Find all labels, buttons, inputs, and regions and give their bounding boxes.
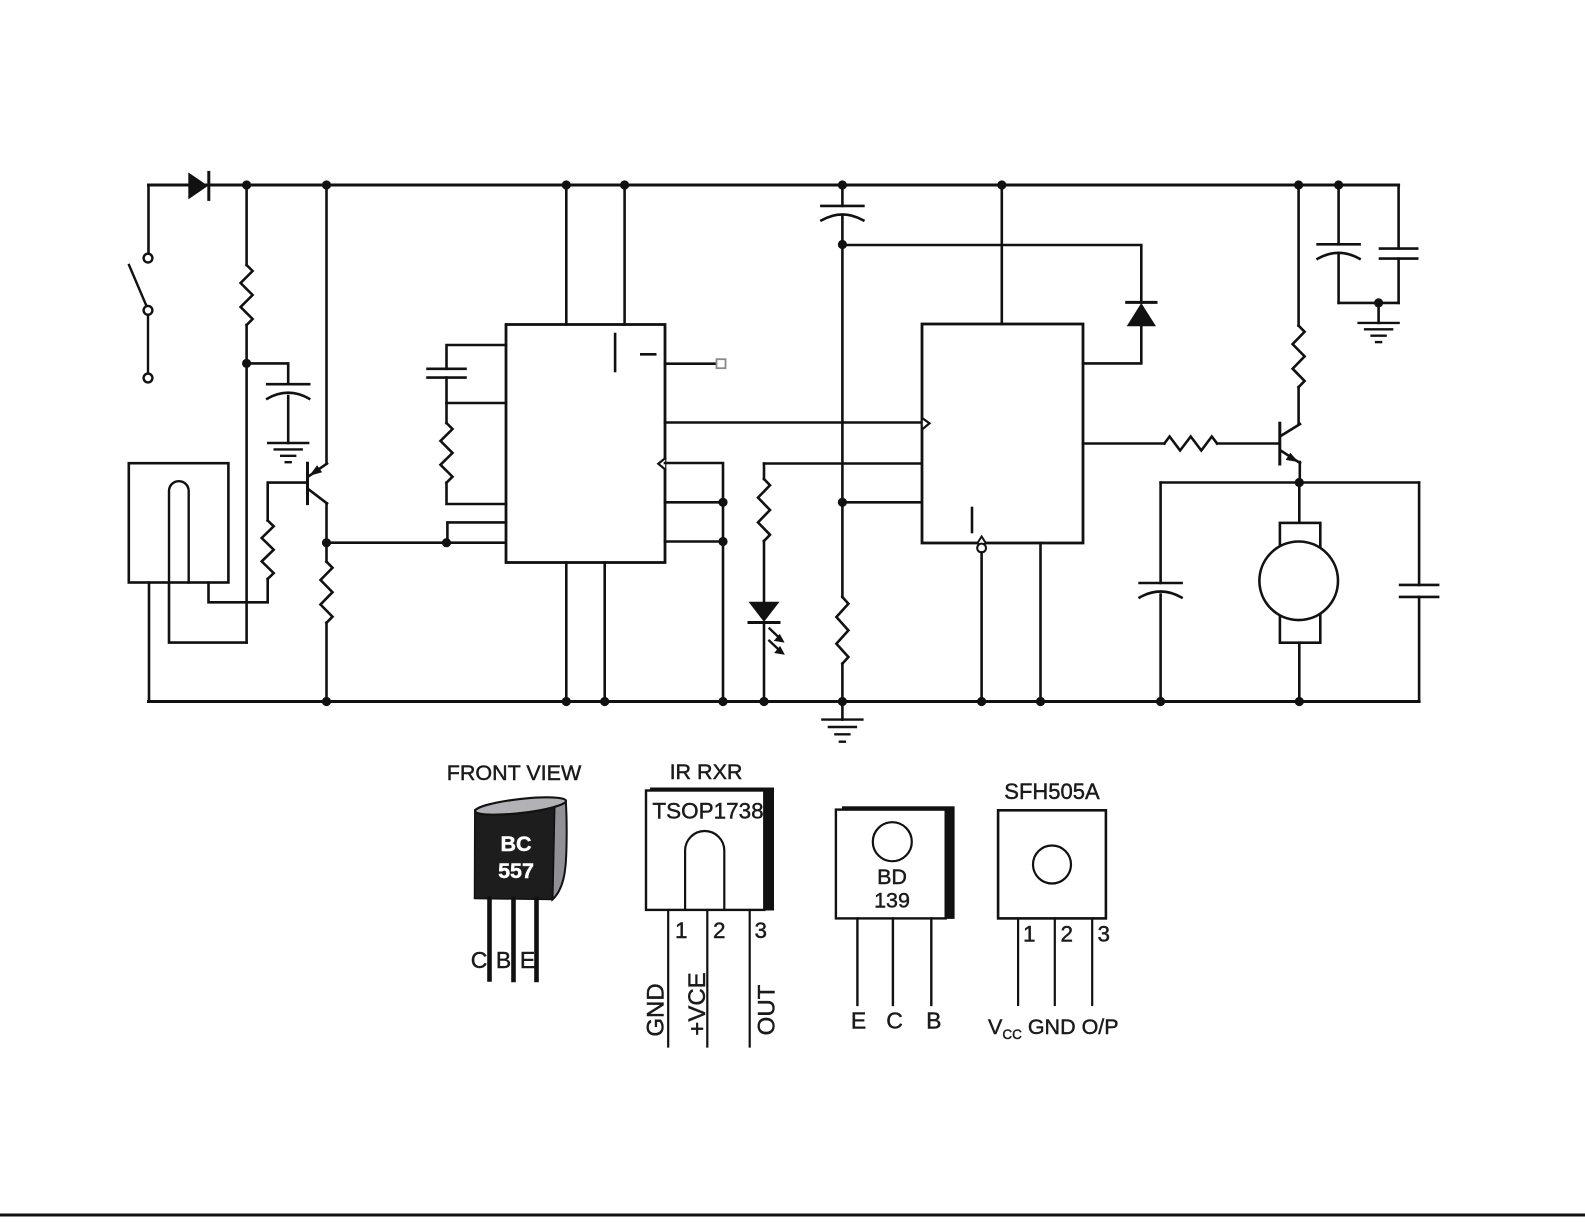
wire R2 to Q2 collector bbox=[1297, 387, 1300, 424]
BC557 lead E bbox=[534, 899, 539, 980]
node H bbox=[1374, 298, 1383, 307]
wire U2 out bbox=[1083, 442, 1164, 445]
wire Q1c to U1 bbox=[327, 541, 507, 544]
node B (R1 / C1 / Vs) bbox=[242, 359, 251, 368]
wire LED net bbox=[764, 462, 921, 465]
node U1gnd/rail bbox=[562, 697, 571, 706]
node rail/U2 bbox=[997, 180, 1006, 189]
node D (trigger net) bbox=[442, 538, 451, 547]
wire U1 pin to C2 top bbox=[447, 345, 507, 369]
svg-text:2: 2 bbox=[1061, 922, 1074, 947]
wire Q2 emitter to motor net bbox=[1299, 462, 1302, 483]
LED D3 bbox=[749, 602, 780, 622]
wire U1 pin bottom-right bbox=[603, 563, 606, 702]
svg-text:C: C bbox=[886, 1008, 903, 1034]
node R5/rail bbox=[322, 697, 331, 706]
wire IRX1 pin1 GND bbox=[148, 583, 151, 702]
svg-text:2: 2 bbox=[713, 918, 726, 943]
page footer rule bbox=[0, 1214, 1585, 1217]
SFH505A pin 3 lead bbox=[1091, 918, 1093, 1005]
wire D2 to node F1 bbox=[842, 245, 1141, 302]
wire Q1 emitter to rail bbox=[325, 185, 328, 464]
wire R3 top to Q1 base bbox=[268, 483, 307, 521]
svg-text:3: 3 bbox=[755, 918, 768, 943]
BC557 lead B bbox=[511, 899, 516, 980]
node rail/C5 bbox=[1334, 180, 1343, 189]
wire U1 pin y502 bbox=[665, 501, 723, 504]
node rail/U1a bbox=[562, 180, 571, 189]
wire LED to rail bbox=[763, 623, 766, 702]
svg-text:VCC GND O/P: VCC GND O/P bbox=[988, 1015, 1119, 1042]
svg-text:BC: BC bbox=[500, 832, 531, 856]
resistor R5 bbox=[321, 562, 333, 623]
node U1b2/rail bbox=[600, 697, 609, 706]
wire U2 top pin bbox=[1000, 185, 1003, 324]
resistor R4 bbox=[441, 423, 453, 483]
node C7/rail bbox=[1156, 697, 1165, 706]
wire rail to C5 bbox=[1337, 185, 1340, 244]
wire C2 bottom / pin bbox=[447, 378, 507, 403]
wire U1 pin to node D bbox=[447, 522, 506, 542]
wire rail corner to C6 bbox=[1397, 185, 1400, 249]
capacitor C7 bbox=[1140, 582, 1182, 585]
SFH505A pin 1 lead bbox=[1017, 918, 1019, 1005]
svg-text:SFH505A: SFH505A bbox=[1004, 779, 1100, 804]
BD139 lead C bbox=[892, 918, 894, 1005]
capacitor C4 bbox=[821, 205, 863, 208]
wire R6 to Q2 base bbox=[1217, 442, 1279, 445]
motor M1 bbox=[1280, 523, 1320, 643]
resistor R3 bbox=[262, 521, 274, 579]
SFH505A pin 2 lead bbox=[1054, 918, 1056, 1005]
wire IRX1 pin3 OUT bbox=[209, 579, 268, 602]
svg-text:C: C bbox=[471, 947, 488, 973]
svg-text:557: 557 bbox=[498, 859, 534, 883]
wire U2 bottom pin2 bbox=[1039, 543, 1042, 702]
TSOP1738 shadow bbox=[650, 788, 774, 911]
resistor R6 bbox=[1164, 437, 1217, 451]
test point square bbox=[717, 359, 726, 368]
wire node B down bbox=[245, 363, 248, 642]
TSOP1738 pin 3 lead bbox=[749, 910, 751, 1047]
ground G3 bbox=[1377, 303, 1380, 323]
svg-text:BD: BD bbox=[877, 865, 907, 889]
capacitor C5 bbox=[1318, 243, 1360, 246]
svg-text:3: 3 bbox=[1098, 922, 1111, 947]
svg-text:TSOP1738: TSOP1738 bbox=[652, 799, 763, 824]
wire U1 pin y463 bbox=[665, 463, 723, 702]
wire +V top rail bbox=[149, 184, 1399, 187]
wire motor bottom lead bbox=[1298, 643, 1301, 702]
wire F2 to U2 bbox=[842, 501, 922, 504]
wire C8 top bbox=[1418, 483, 1421, 585]
node motor/rail bbox=[1295, 697, 1304, 706]
wire U1 out to U2 in bbox=[665, 421, 921, 424]
wire to C1 bbox=[247, 363, 289, 384]
wire U1 pin y541 bbox=[665, 540, 723, 543]
TSOP1738 dome bbox=[685, 831, 724, 910]
U1 input arrow bbox=[658, 458, 665, 469]
TSOP1738 pin 1 lead bbox=[667, 910, 669, 1047]
wire C7 bottom bbox=[1159, 595, 1162, 702]
ground G1 bbox=[268, 443, 308, 462]
capacitor C2 bbox=[428, 367, 466, 370]
wire R8 to LED bbox=[763, 541, 766, 602]
wire R5 leads bbox=[325, 543, 328, 562]
node rail/U1b bbox=[620, 180, 629, 189]
BD139 shadow bbox=[842, 806, 955, 919]
wire C7 top bbox=[1159, 483, 1162, 584]
switch S1 bbox=[129, 254, 152, 383]
svg-text:139: 139 bbox=[874, 889, 910, 913]
wire C8 bottom bbox=[1418, 597, 1421, 702]
wire 0V bottom rail bbox=[149, 700, 1420, 703]
resistor R2 bbox=[1293, 326, 1305, 387]
node A (rail / R1) bbox=[242, 180, 251, 189]
node F1 (diode tap) bbox=[838, 240, 847, 249]
svg-text:FRONT VIEW: FRONT VIEW bbox=[447, 761, 582, 785]
node E2 bbox=[718, 537, 727, 546]
node E1 bbox=[718, 498, 727, 507]
diode D1 bbox=[188, 172, 208, 199]
wire C6 down bbox=[1397, 259, 1400, 303]
wire rail to R2 bbox=[1297, 185, 1300, 326]
wire cap join bar bbox=[1339, 302, 1399, 305]
svg-text:GND: GND bbox=[643, 983, 670, 1036]
resistor R8 bbox=[758, 479, 770, 541]
wire U1 pin top-right bbox=[623, 185, 626, 325]
wire IRX1 pin2 Vs bbox=[169, 583, 247, 643]
resistor R7 bbox=[836, 597, 848, 664]
svg-text:OUT: OUT bbox=[754, 984, 781, 1035]
wire R7 to rail bbox=[841, 664, 844, 702]
U2 input arrow bbox=[923, 419, 930, 429]
node E3 (rail) bbox=[718, 697, 727, 706]
node rail/C4 bbox=[838, 180, 847, 189]
node LED/rail bbox=[759, 697, 768, 706]
wire U2 to D2 bbox=[1083, 326, 1141, 363]
node F2 (U2 pin tap) bbox=[838, 498, 847, 507]
wire switch feed bbox=[147, 185, 150, 254]
IR receiver module IRX1 body bbox=[129, 463, 229, 582]
node rail/R2 bbox=[1294, 180, 1303, 189]
resistor R1 bbox=[241, 265, 253, 325]
node R7/rail bbox=[838, 697, 847, 706]
TSOP1738 body bbox=[646, 791, 764, 910]
BD139 body bbox=[836, 810, 946, 919]
node rail/Q1e bbox=[322, 180, 331, 189]
svg-text:IR RXR: IR RXR bbox=[670, 760, 743, 784]
node C (Q1 collector) bbox=[322, 538, 331, 547]
svg-text:B: B bbox=[926, 1008, 941, 1034]
BD139 mounting hole bbox=[873, 822, 912, 861]
wire R4 bottom pin bbox=[447, 483, 507, 504]
wire motor top lead bbox=[1298, 483, 1301, 523]
op-amp U2 IC2 box bbox=[922, 324, 1083, 543]
capacitor C6 bbox=[1380, 247, 1417, 250]
wire motor net horizontal bbox=[1161, 481, 1420, 484]
wire C1 to ground bbox=[287, 396, 290, 443]
SFH505A lens bbox=[1033, 846, 1071, 884]
TSOP1738 pin 2 lead bbox=[706, 910, 708, 1047]
capacitor C1 bbox=[267, 383, 309, 386]
U2 pin mark tick bbox=[971, 508, 974, 532]
wire U2 bubble pin to rail bbox=[980, 552, 983, 701]
wire R1 top bbox=[245, 185, 248, 265]
node U2p2/rail bbox=[1036, 697, 1045, 706]
wire U1 output to test point bbox=[665, 362, 717, 365]
BC557 lead C bbox=[487, 899, 492, 980]
wire C5 down bbox=[1337, 255, 1340, 303]
node U2p1/rail bbox=[977, 697, 986, 706]
node G (motor net) bbox=[1295, 478, 1304, 487]
wire rail to C4 bbox=[841, 185, 844, 206]
transistor Q2 BD139 bbox=[1280, 423, 1300, 464]
diode D2 bbox=[1127, 303, 1156, 326]
U1 pin mark tick bbox=[614, 334, 617, 371]
transistor Q1 BC557 bbox=[308, 463, 328, 503]
BC557 package body bbox=[474, 794, 567, 900]
BD139 lead E bbox=[856, 918, 858, 1005]
U2 inverted pin bubble bbox=[978, 537, 986, 544]
SFH505A body bbox=[998, 810, 1106, 918]
svg-text:E: E bbox=[851, 1008, 866, 1034]
wire C4 down bbox=[841, 216, 844, 597]
ground G2 bbox=[841, 702, 844, 720]
op-amp U1 IC1 box bbox=[506, 325, 665, 563]
svg-text:1: 1 bbox=[675, 918, 688, 943]
svg-text:E: E bbox=[520, 947, 535, 973]
capacitor C8 bbox=[1400, 584, 1438, 587]
U1 pin mark dash bbox=[641, 353, 655, 356]
BD139 lead B bbox=[930, 918, 932, 1005]
wire R1 bottom bbox=[245, 325, 248, 363]
LED arrows bbox=[769, 629, 785, 655]
svg-text:+VCE: +VCE bbox=[684, 972, 711, 1035]
IR receiver sensor dome bbox=[169, 481, 189, 582]
svg-text:1: 1 bbox=[1023, 922, 1036, 947]
wire Q1 collector bbox=[325, 503, 328, 542]
wire U1 Vcc pin top-left bbox=[565, 185, 568, 325]
svg-text:B: B bbox=[496, 947, 511, 973]
wire U1 gnd pin bottom-left bbox=[565, 563, 568, 702]
